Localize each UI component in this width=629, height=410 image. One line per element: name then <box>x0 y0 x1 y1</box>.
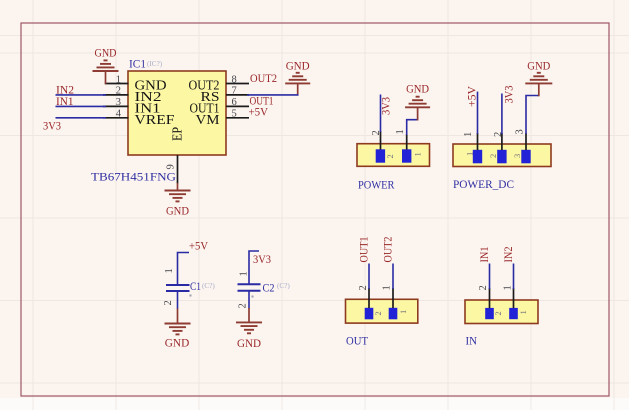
svg-text:2: 2 <box>116 86 121 97</box>
svg-text:3V3: 3V3 <box>381 97 393 115</box>
pin 8 (OUT2) <box>189 74 250 92</box>
svg-text:(C?): (C?) <box>277 282 290 290</box>
ground GND (top-left, at IC pin 1) <box>93 48 119 85</box>
svg-text:2: 2 <box>478 285 489 290</box>
svg-text:2: 2 <box>163 300 174 305</box>
svg-text:6: 6 <box>232 97 237 108</box>
svg-text:(IC?): (IC?) <box>147 60 163 68</box>
svg-text:2: 2 <box>488 154 498 158</box>
pin 2 (IN2) <box>103 86 162 104</box>
svg-text:VREF: VREF <box>135 112 176 127</box>
svg-text:1: 1 <box>465 152 475 156</box>
pin 9 (EP) <box>165 127 184 184</box>
svg-text:2: 2 <box>238 303 249 308</box>
POWER pad 1 <box>402 149 423 162</box>
svg-text:GND: GND <box>406 84 429 96</box>
svg-text:C2: C2 <box>263 281 275 295</box>
POWER_DC pin 2 wire to 3V3 <box>493 85 516 150</box>
svg-text:4: 4 <box>116 109 122 120</box>
ground GND (top-right, at IC pin 7 RS) <box>285 61 310 96</box>
capacitor C1 <box>163 241 215 310</box>
svg-text:C1: C1 <box>190 279 201 293</box>
svg-text:1: 1 <box>395 129 406 134</box>
designator IC1 <box>129 57 163 71</box>
svg-text:OUT2: OUT2 <box>250 73 277 85</box>
pin 3 (IN1) <box>103 97 161 115</box>
svg-text:OUT2: OUT2 <box>383 236 395 262</box>
wire IN1 to pin 3 <box>56 105 107 107</box>
svg-text:5: 5 <box>232 109 237 120</box>
svg-text:1: 1 <box>398 310 408 314</box>
svg-text:9: 9 <box>165 164 176 169</box>
svg-text:IN: IN <box>466 334 478 348</box>
svg-text:1: 1 <box>382 285 393 290</box>
svg-text:GND: GND <box>166 206 189 218</box>
svg-text:1: 1 <box>518 310 528 314</box>
svg-text:2: 2 <box>358 285 369 290</box>
svg-text:1: 1 <box>463 132 474 137</box>
POWER pin 2 wire to 3V3 <box>371 95 393 150</box>
ground GND (above POWER pin 1) <box>405 84 430 121</box>
OUT pad 1 <box>389 308 408 320</box>
POWER_DC pad 2 <box>488 150 507 164</box>
svg-text:1: 1 <box>116 74 121 85</box>
svg-text:2: 2 <box>493 132 504 137</box>
connector POWER body <box>357 144 430 192</box>
svg-text:(C?): (C?) <box>202 282 215 290</box>
svg-text:OUT1: OUT1 <box>359 236 371 262</box>
connector POWER_DC body <box>453 144 551 191</box>
wire pin 7 RS to ground <box>247 94 299 96</box>
svg-text:1: 1 <box>503 285 514 290</box>
capacitor C2 <box>238 251 291 309</box>
svg-text:GND: GND <box>237 338 261 350</box>
ground GND (below C2) <box>236 308 262 350</box>
svg-text:1: 1 <box>413 152 423 156</box>
svg-text:TB67H451FNG: TB67H451FNG <box>91 170 176 184</box>
svg-text:IC1: IC1 <box>129 57 146 71</box>
svg-text:POWER: POWER <box>358 178 395 192</box>
svg-text:1: 1 <box>239 271 250 276</box>
svg-text:GND: GND <box>95 48 117 60</box>
svg-text:VM: VM <box>196 112 220 127</box>
ground GND (below IC, at pin 9 EP) <box>165 183 191 218</box>
connector IN body <box>465 300 538 348</box>
svg-text:2: 2 <box>373 311 383 315</box>
wire 3V3 to pin 4 <box>56 117 107 119</box>
svg-text:3V3: 3V3 <box>504 85 516 103</box>
OUT pin 1 wire to OUT2 <box>382 236 395 308</box>
wire IN2 to pin 2 <box>56 94 107 96</box>
pin 5 (VM) <box>196 109 250 127</box>
svg-text:+5V: +5V <box>189 241 209 253</box>
svg-text:3V3: 3V3 <box>43 121 61 133</box>
connector OUT body <box>346 299 418 347</box>
svg-text:1: 1 <box>164 268 175 273</box>
pin 1 (GND) <box>105 74 167 92</box>
svg-text:+5V: +5V <box>467 85 479 107</box>
POWER pin 1 wire to ground <box>395 120 418 150</box>
svg-text:8: 8 <box>232 74 237 85</box>
svg-text:2: 2 <box>371 130 382 135</box>
POWER_DC pad 3 <box>512 150 531 164</box>
IN pad 1 <box>509 308 528 319</box>
pin 7 (RS) <box>201 86 250 104</box>
pin 6 (OUT1) <box>190 97 250 115</box>
svg-text:3V3: 3V3 <box>253 254 271 266</box>
svg-text:EP: EP <box>170 127 185 141</box>
svg-text:+5V: +5V <box>249 107 269 119</box>
POWER_DC pin 3 wire to ground <box>515 96 539 151</box>
ground GND (above POWER_DC pin 3) <box>525 61 552 97</box>
POWER_DC pin 1 wire to +5V <box>463 85 479 150</box>
svg-text:POWER_DC: POWER_DC <box>453 177 514 191</box>
svg-text:2: 2 <box>385 154 395 158</box>
OUT pin 2 wire to OUT1 <box>358 236 371 308</box>
IC IC1 TB67H451FNG body <box>128 71 226 155</box>
svg-text:OUT: OUT <box>346 334 369 348</box>
IN pin 2 wire to IN1 <box>478 246 491 308</box>
svg-text:3: 3 <box>515 129 526 134</box>
pin 4 (VREF) <box>103 109 175 127</box>
IN pin 1 wire to IN2 <box>503 246 516 308</box>
IN pad 2 <box>485 308 503 319</box>
POWER pad 2 <box>376 149 395 162</box>
ground GND (below C1) <box>165 309 191 350</box>
OUT pad 2 <box>365 308 383 320</box>
svg-text:GND: GND <box>286 61 310 73</box>
svg-text:3: 3 <box>512 154 522 158</box>
svg-text:2: 2 <box>493 311 503 315</box>
POWER_DC pad 1 <box>465 150 483 164</box>
svg-text:7: 7 <box>232 86 237 97</box>
svg-text:3: 3 <box>116 97 121 108</box>
svg-text:IN1: IN1 <box>479 246 491 262</box>
svg-text:GND: GND <box>165 338 190 350</box>
svg-text:IN2: IN2 <box>503 246 515 262</box>
svg-text:GND: GND <box>527 61 550 73</box>
